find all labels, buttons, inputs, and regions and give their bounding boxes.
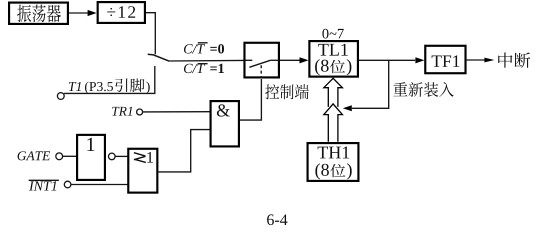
wire TF1 to interrupt bbox=[467, 59, 486, 61]
wire divider down to switch bbox=[146, 13, 155, 55]
label T1 italic bbox=[69, 82, 81, 91]
wire switch to control box bbox=[169, 59, 243, 62]
label INT1 bbox=[29, 181, 56, 190]
control box left contact stub bbox=[245, 59, 252, 61]
wire or gate to and gate bbox=[158, 130, 210, 172]
wire bubble to or gate bbox=[115, 155, 128, 157]
label 1 of or gate bbox=[147, 152, 153, 163]
or gate box bbox=[128, 149, 157, 193]
arrowhead into TF1 bbox=[415, 57, 424, 63]
control box actuator dashed bbox=[260, 65, 262, 78]
label 位 of TL1 bbox=[330, 60, 345, 73]
label =1 bold bbox=[210, 64, 224, 73]
label closing paren of T1 bbox=[146, 81, 149, 93]
label 1 of not box bbox=[87, 138, 94, 151]
divider label ÷12 bbox=[107, 6, 135, 18]
not gate box 1 bbox=[77, 135, 105, 180]
overline of INT1 bbox=[29, 179, 59, 181]
oscillator label 振荡器 bbox=[17, 5, 61, 23]
arrowhead interrupt bbox=[484, 58, 494, 63]
label TF1 bbox=[432, 55, 460, 67]
inversion bubble of not box bbox=[109, 153, 116, 160]
label C/T line1 bbox=[184, 64, 205, 73]
caption 6-4 bbox=[267, 214, 287, 225]
register TF1 bbox=[425, 46, 465, 73]
terminal TR1 bbox=[137, 109, 143, 115]
label 0~7 bbox=[322, 29, 343, 39]
hollow transfer arrow lower bbox=[324, 104, 343, 142]
terminal GATE bbox=[56, 153, 63, 160]
label >= of or gate bbox=[134, 153, 146, 163]
arrowhead into TL1 bbox=[300, 57, 309, 63]
label GATE bbox=[18, 151, 51, 160]
label =0 bold bbox=[210, 44, 224, 53]
label 位 of TH1 bbox=[330, 164, 345, 177]
wire reload branch bbox=[352, 60, 389, 108]
arrowhead into divider bbox=[88, 10, 97, 16]
control box blade bbox=[249, 60, 270, 67]
register TH1 bbox=[308, 143, 359, 181]
wire oscillator to divider bbox=[69, 12, 89, 14]
arrowhead reload into transfer arrow bbox=[343, 105, 352, 111]
label (8 of TH1 bbox=[315, 163, 329, 179]
wire and output to control box bbox=[240, 79, 262, 120]
hollow transfer arrow upper bbox=[324, 78, 343, 107]
label & of and gate bbox=[217, 104, 230, 116]
and gate box bbox=[211, 101, 239, 146]
wire control box to TL1 bbox=[280, 59, 300, 61]
wire TL1 to TF1 bbox=[359, 59, 415, 61]
wire T1 pin to switch contact bbox=[64, 66, 155, 93]
switch blade bbox=[148, 54, 170, 61]
oscillator box 振荡器 bbox=[9, 3, 68, 24]
register TL1 bbox=[309, 41, 358, 77]
overline over T line0 bbox=[198, 42, 208, 44]
label 中断 bbox=[498, 53, 530, 68]
overline over T line1 bbox=[198, 63, 208, 65]
wire INT1 to or gate bbox=[71, 184, 129, 186]
control box bbox=[244, 43, 278, 78]
control box right contact stub bbox=[270, 59, 279, 61]
wire TR1 to and gate bbox=[143, 111, 210, 113]
wire GATE to not box bbox=[63, 155, 77, 157]
label 重新装入 bbox=[393, 82, 454, 97]
divider box ÷12 bbox=[98, 2, 145, 23]
label 引脚 bbox=[115, 78, 144, 91]
label ) of TH1 bbox=[347, 163, 352, 179]
label (8 of TL1 bbox=[315, 59, 329, 75]
label 控制端 bbox=[265, 84, 309, 99]
terminal T1 pin bbox=[57, 93, 64, 100]
label ) of TL1 bbox=[347, 59, 352, 75]
label TL1 bbox=[318, 44, 348, 56]
label TR1 bbox=[112, 107, 132, 116]
label (P3.5 bbox=[85, 82, 113, 94]
terminal INT1 bbox=[64, 181, 71, 188]
label C/T line0 bbox=[184, 44, 205, 53]
label TH1 bbox=[318, 147, 350, 159]
